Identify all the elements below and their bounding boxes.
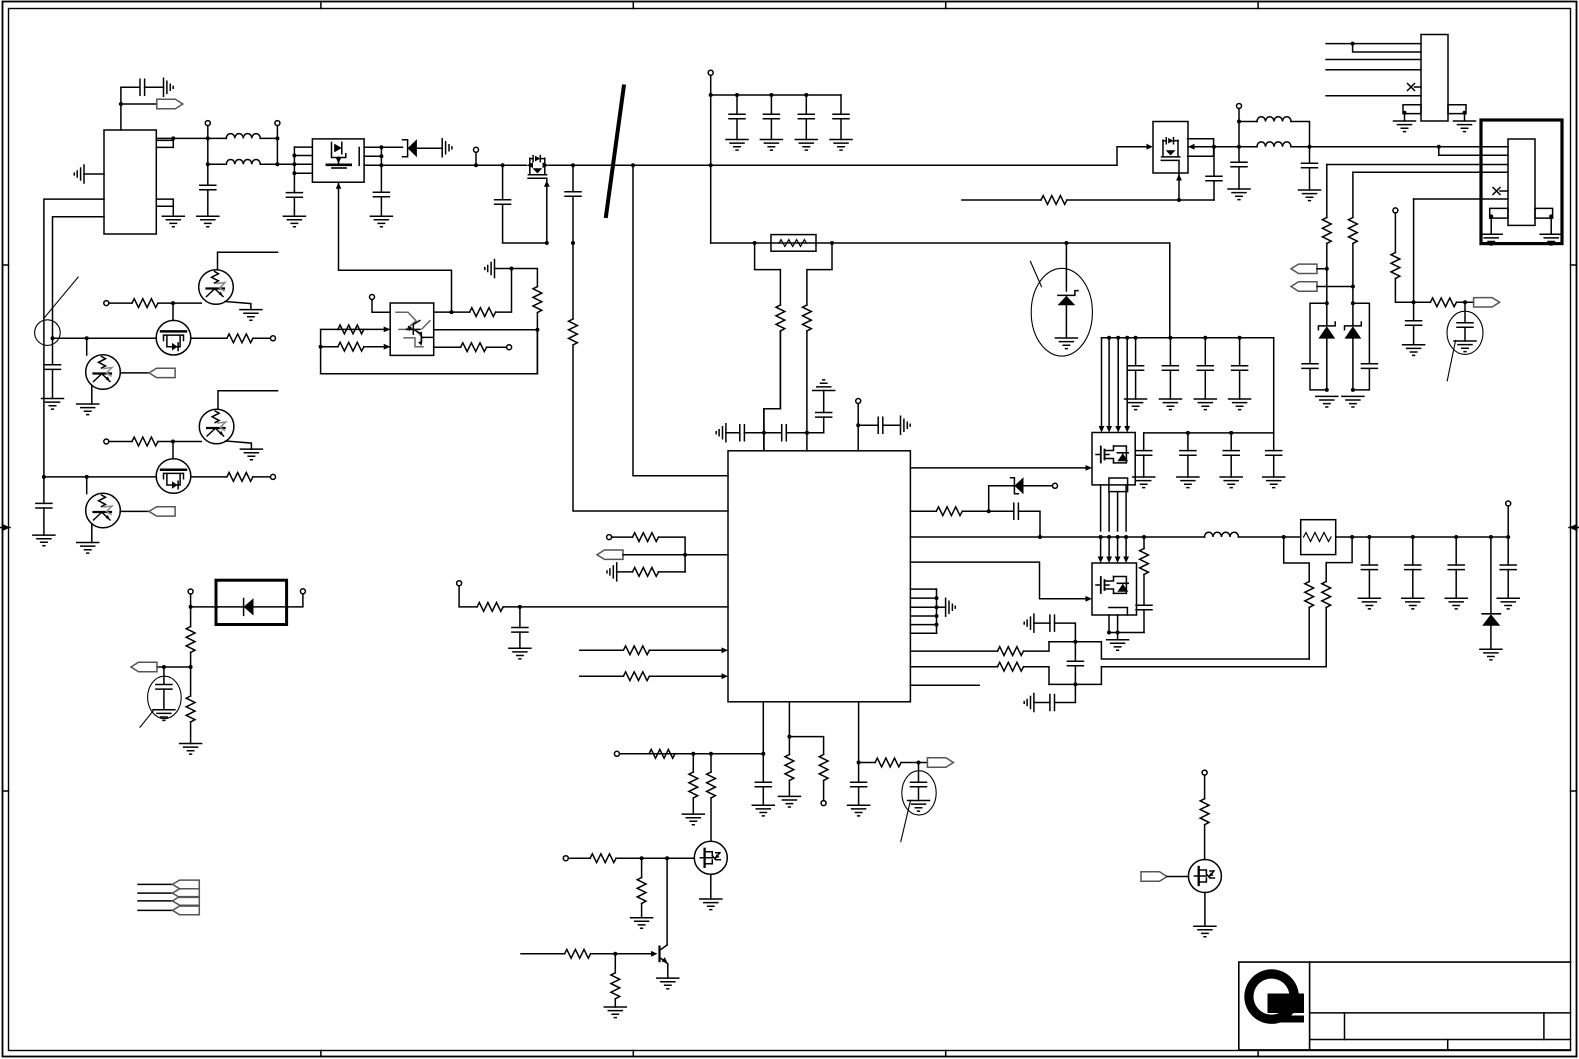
wire U3 isense+ row xyxy=(910,642,1049,651)
resistor R44 xyxy=(1322,582,1331,608)
resistor R14 xyxy=(227,334,253,343)
wire Q10 out xyxy=(191,476,227,478)
net flag Q6 gate xyxy=(1141,872,1167,881)
wire Q3 bottom pin xyxy=(1178,173,1180,200)
boot diode row xyxy=(989,485,1015,487)
arrow EN xyxy=(722,647,729,653)
resistor R43 xyxy=(1305,582,1314,608)
wire choke output column xyxy=(276,126,278,165)
wire opto collector out xyxy=(434,311,452,313)
wire node to R49 xyxy=(1414,301,1431,303)
ground C18 xyxy=(509,648,531,659)
junction dot kelvin left xyxy=(1282,535,1286,539)
wire R14 to terminal xyxy=(253,337,271,339)
wire Q1 right bus xyxy=(380,147,382,191)
ground QL xyxy=(1117,633,1119,640)
wire to net flag xyxy=(121,103,157,105)
wire U3 nc stub xyxy=(910,684,979,686)
ground C20 xyxy=(848,805,870,816)
terminal opto anode xyxy=(370,295,375,300)
junction dot out c34 xyxy=(1506,535,1510,539)
big slash mark xyxy=(606,87,624,217)
diode D5 cathode bar xyxy=(1482,613,1500,615)
wire C3 to ground xyxy=(293,191,295,216)
annotation ellipse around D2 xyxy=(1031,268,1092,356)
junction dot QL src 1 xyxy=(1107,631,1111,635)
junction dot QL src 2 xyxy=(1116,631,1120,635)
junction dot choke in bottom xyxy=(206,162,210,166)
inductor L1b xyxy=(226,160,260,165)
wire R37 branch xyxy=(788,737,790,755)
junction dot Q1 bus 3 xyxy=(292,171,296,175)
wire opto bottom rail xyxy=(321,330,538,374)
ground D5 xyxy=(1480,649,1502,660)
wire input cap rail 2 xyxy=(1144,433,1274,451)
junction dot out c32 xyxy=(1411,535,1415,539)
resistor R16 xyxy=(227,473,253,482)
transistor Q11 (digital npn) xyxy=(199,409,234,444)
resistor R27 xyxy=(623,646,649,655)
junction dot out diode xyxy=(1489,535,1493,539)
transistor Q1 (P-FET block) xyxy=(312,139,364,182)
junction dot rail2 c44 xyxy=(1229,431,1233,435)
resistor R23 xyxy=(461,343,487,352)
wire Q5 base row xyxy=(521,953,651,955)
capacitor C2 xyxy=(200,185,216,190)
capacitor C32 xyxy=(1412,537,1414,565)
wire TP4 column xyxy=(710,75,712,243)
border tick left 2 xyxy=(3,790,9,792)
capacitor C11 xyxy=(45,365,61,370)
border tick right 2 xyxy=(1571,790,1577,792)
wire J2 pin6 column xyxy=(1413,199,1415,302)
wire C35 column xyxy=(1213,147,1215,200)
diode D3 box xyxy=(216,580,287,624)
net flag divider xyxy=(131,662,157,671)
wire C24 row xyxy=(1034,623,1076,642)
capacitor C42 xyxy=(1136,451,1152,456)
top decoupling chain: analog ground xyxy=(716,424,726,442)
junction dot main rail x633 xyxy=(631,163,635,167)
ground U1 xyxy=(162,216,184,227)
wire U3 pin VCC top jog xyxy=(764,331,781,451)
junction dot TVS2 top xyxy=(1351,301,1355,305)
wire R18 to ground xyxy=(190,722,192,744)
wire Q9 emitter to ground xyxy=(91,386,93,405)
capacitor C17 xyxy=(878,417,883,433)
capacitor C23 xyxy=(1067,661,1083,666)
wire J1 tab grounds xyxy=(1405,114,1465,121)
resistor R20 xyxy=(338,342,364,351)
wire U3 isense- row xyxy=(910,667,1049,685)
wire gnd pin bus xyxy=(936,589,938,633)
wire R36 to terminal xyxy=(823,781,825,801)
wire R48 to node xyxy=(1395,279,1413,303)
resistor R29 xyxy=(649,749,675,758)
Q2 gate line xyxy=(528,178,547,243)
wire comp cap branch xyxy=(762,754,764,806)
junction dot choke2 top xyxy=(1237,120,1241,124)
wire snubber column xyxy=(1143,537,1145,549)
wire D1 to chassis ground xyxy=(417,147,442,149)
QH bottom notch xyxy=(1109,478,1128,492)
resistor R12 xyxy=(803,305,812,331)
QH body diode xyxy=(1117,453,1128,461)
wire J1 pin1 xyxy=(1326,43,1421,45)
wire input cap rail 1 xyxy=(1102,338,1274,433)
capacitor C41 in ellipse xyxy=(1464,302,1466,322)
wire J1 pin2 jog xyxy=(1353,44,1421,52)
junction dot base xyxy=(613,952,617,956)
resistor R25 xyxy=(633,568,659,577)
wire D5 column xyxy=(1490,537,1492,614)
wire R24 bend down xyxy=(659,537,686,572)
capacitor C14 xyxy=(740,425,745,441)
resistor R24 xyxy=(633,533,659,542)
resistor R31 xyxy=(707,772,716,798)
wire D2 to ground xyxy=(1065,305,1067,338)
wire C5 branch xyxy=(503,165,547,243)
resistor R45 xyxy=(1041,196,1067,205)
diode D4 cathode bent bar xyxy=(1011,478,1019,494)
junction dot zener rail xyxy=(1064,241,1068,245)
resistor R42 xyxy=(1140,549,1149,575)
J1 mount tab right xyxy=(1448,105,1466,114)
junction dot c8 xyxy=(769,93,773,97)
junction dot TVS1 top xyxy=(1325,301,1329,305)
junction dot cluster1 left xyxy=(85,336,89,340)
resistor R11 xyxy=(776,305,785,331)
junction dot J2 tab right xyxy=(1549,214,1553,218)
annotation pointer line C13 xyxy=(140,711,154,728)
wire gate row xyxy=(568,857,694,859)
capacitor C7 xyxy=(736,95,738,114)
wire Q9 flag xyxy=(121,372,150,374)
wire zener column xyxy=(1065,243,1067,291)
diode D1 xyxy=(408,139,417,157)
ground C42 xyxy=(1133,477,1155,488)
wire U3 left pin1 xyxy=(633,165,728,476)
ground C4 xyxy=(370,216,392,227)
wire R46 down xyxy=(1326,244,1328,304)
resistor R46 xyxy=(1322,218,1331,244)
ground R18 xyxy=(180,744,202,755)
wire C6 column xyxy=(572,165,574,243)
wire main to J2 xyxy=(1291,146,1508,148)
junction dot c7 xyxy=(735,93,739,97)
wire boot cap xyxy=(858,424,878,426)
wire QH feed 2 xyxy=(1108,338,1110,426)
Q3 mosfet glyph xyxy=(1161,138,1180,173)
junction dot J1 tab left xyxy=(1403,111,1407,115)
transistor Q2 (pass FET) xyxy=(527,156,549,175)
wire C2 to ground xyxy=(207,190,209,216)
annotation ellipse node A xyxy=(35,320,61,346)
Q1 source arrowhead bottom xyxy=(336,183,342,189)
junction dot choke2 out xyxy=(1308,145,1312,149)
wire left bend opto xyxy=(321,329,338,373)
transistor Q4 (nfet) xyxy=(694,841,727,874)
wire cap rail y95 xyxy=(711,94,841,96)
junction dot RT xyxy=(518,605,522,609)
ground J1 right xyxy=(1454,121,1476,132)
junction dot gnd bus 4 xyxy=(935,623,939,627)
ground R33 xyxy=(631,918,653,929)
junction dot rail1 c26 xyxy=(1134,336,1138,340)
wire Q7 out xyxy=(191,337,227,339)
junction dot opto left xyxy=(319,345,323,349)
RT pin: terminal xyxy=(457,581,462,586)
wire fsel branch right xyxy=(789,737,823,755)
wire bus to agnd xyxy=(937,606,946,608)
shunt resistor RS1 box xyxy=(771,235,816,252)
title block cell divider a xyxy=(1344,1013,1346,1040)
wire QH-QL link 2 xyxy=(1108,492,1110,531)
capacitor C27 xyxy=(1169,338,1171,366)
net flag VREF xyxy=(927,758,953,767)
junction dot Q3 gate xyxy=(1177,198,1181,202)
chassis ground right of C1 xyxy=(164,78,174,96)
diode D3 xyxy=(218,599,287,616)
terminal Q6 drain xyxy=(1202,770,1207,775)
capacitor C1 xyxy=(140,79,145,95)
wire TVS2 cap branch xyxy=(1353,303,1370,390)
border center arrow left xyxy=(2,524,11,532)
wire R30 branch xyxy=(692,754,694,772)
wire C16 to inverted ground xyxy=(823,391,825,413)
terminal TP3 xyxy=(474,147,479,152)
arrow into QH xyxy=(1086,465,1093,471)
wire QH feed 3 xyxy=(1117,338,1119,426)
wire Q8 emitter to ground xyxy=(225,302,251,310)
capacitor C40 xyxy=(1413,302,1415,320)
QH mosfet glyph xyxy=(1101,447,1105,463)
border tick bottom 3 xyxy=(945,1051,947,1057)
Q3 right notch xyxy=(1188,139,1214,157)
wire choke2 top winding lead xyxy=(1239,121,1257,123)
wire FB to U3 xyxy=(623,554,728,556)
wire J2 nc stub xyxy=(1500,190,1508,192)
resistor R18 xyxy=(186,696,195,722)
capacitor C24 xyxy=(1050,615,1055,631)
junction dot C5 top xyxy=(501,163,505,167)
arrow QH in 3 xyxy=(1115,426,1121,433)
U3 gnd pin stubs xyxy=(910,589,936,633)
ground D2 xyxy=(1055,338,1077,349)
wire pullup column xyxy=(1394,213,1396,253)
wire Q9 collector branch xyxy=(86,338,88,355)
wire D3 right to terminal xyxy=(287,594,303,607)
junction dot comp 3 xyxy=(761,752,765,756)
wire flag to TVS2 xyxy=(1317,286,1353,288)
resistor R21 xyxy=(470,308,496,317)
ground C13 xyxy=(153,710,175,721)
wire main rail into Q1 bus xyxy=(277,163,294,165)
wire R37 gnd xyxy=(788,781,790,797)
junction dot sense right xyxy=(830,241,834,245)
wire RS2 through xyxy=(1336,536,1352,538)
wire to annotation cap xyxy=(163,667,165,684)
ground R35 xyxy=(604,1007,626,1018)
transistor Q8 (digital npn) xyxy=(199,270,234,305)
wire Q11 collector xyxy=(218,391,278,410)
diode D1 cathode bent bar xyxy=(403,140,408,157)
ground TVS1 xyxy=(1316,396,1338,407)
resistor R47 xyxy=(1349,218,1358,244)
Q1 body diode symbol xyxy=(332,142,342,154)
connector J1 body xyxy=(1421,35,1448,122)
ground C12 xyxy=(33,535,55,546)
terminal pullup xyxy=(1393,208,1398,213)
ground Q4 xyxy=(700,899,722,910)
wire C42 gnd xyxy=(1143,455,1145,477)
resistor R17 xyxy=(186,627,195,653)
ground J2 right xyxy=(1540,234,1562,245)
terminal cluster2 gate input xyxy=(104,439,109,444)
ground C3 xyxy=(283,216,305,227)
capacitor C45 xyxy=(1273,433,1275,451)
IC U3 xyxy=(728,451,910,702)
capacitor C30 xyxy=(1136,605,1152,610)
wire anode xyxy=(372,300,390,313)
wire gate drive row xyxy=(962,199,1214,201)
terminal boot xyxy=(856,399,861,404)
junction dot comp 2 xyxy=(709,752,713,756)
wire vref row xyxy=(859,762,928,764)
ground R30 xyxy=(682,814,704,825)
junction dot TP3 xyxy=(474,163,478,167)
ground Q9 xyxy=(77,404,99,415)
wire U1 gnd pin xyxy=(172,206,174,216)
wire U3 fsel pin down xyxy=(788,702,790,737)
arrow into QL xyxy=(1086,596,1093,602)
border tick top 2 xyxy=(632,2,634,9)
wire choke input column xyxy=(207,126,209,186)
wire EN pin xyxy=(580,649,726,651)
junction dot choke in top xyxy=(206,136,210,140)
wire U1 pin to vertical bus B xyxy=(53,217,105,339)
wire comp rail xyxy=(617,753,763,755)
inductor L3b xyxy=(1257,142,1291,147)
wire J1 pin3 xyxy=(1326,59,1421,61)
net flag harness 1 xyxy=(173,880,200,889)
wire D4 to terminal xyxy=(1024,485,1053,487)
arrow QH in 2 xyxy=(1106,426,1112,433)
resistor R33 xyxy=(637,878,646,904)
capacitor C37 xyxy=(1309,147,1311,164)
resistor R41 xyxy=(998,662,1024,671)
wire R25 to FB node xyxy=(659,571,686,573)
diode D5 xyxy=(1482,614,1500,626)
junction dot opto pullup xyxy=(510,267,514,271)
junction dot boot node xyxy=(987,509,991,513)
junction dot choke out top xyxy=(275,136,279,140)
capacitor C18 xyxy=(512,628,528,633)
net flag harness 4 xyxy=(173,906,200,915)
junction dot feed4 xyxy=(1125,336,1129,340)
wire R22 down xyxy=(536,313,538,374)
shunt resistor RS2 box xyxy=(1301,520,1336,555)
wire R43 to sense rail xyxy=(1308,608,1310,660)
wire boot node up xyxy=(988,486,990,511)
terminal choke2 xyxy=(1237,104,1242,109)
analog ground FB xyxy=(607,563,617,581)
wire QL source down 1 xyxy=(1108,615,1110,633)
capacitor C25 xyxy=(1050,695,1055,711)
wire R12 to U3 xyxy=(806,331,808,451)
wire L3a to right column xyxy=(1291,122,1310,147)
junction dot TVS1 bottom xyxy=(1325,388,1329,392)
ground inverted C16 xyxy=(813,380,835,391)
border tick bottom 1 xyxy=(320,1051,322,1057)
zener D6 xyxy=(1326,303,1328,325)
capacitor C29 xyxy=(1239,338,1241,366)
wire R10 to U3 pin xyxy=(573,345,728,511)
connector J2 inner body xyxy=(1508,139,1535,225)
ground R37 xyxy=(778,796,800,807)
junction dot c9 xyxy=(804,93,808,97)
border tick top 4 xyxy=(1257,2,1259,9)
junction dot VCC chain xyxy=(762,431,766,435)
capacitor C8 xyxy=(770,95,772,114)
terminal Q4 gate xyxy=(563,856,568,861)
terminal VOUT xyxy=(1506,501,1511,506)
annotation pointer line node A xyxy=(45,277,79,317)
title block outline xyxy=(1239,962,1571,1050)
resistor R19 xyxy=(338,325,364,334)
junction dot choke out bottom xyxy=(275,162,279,166)
wire R11 to U3 pin jog xyxy=(764,331,781,451)
wire harness 2 xyxy=(138,892,173,894)
net flag FB xyxy=(597,550,623,559)
wire R21 up bend xyxy=(496,269,512,313)
capacitor C28 xyxy=(1204,338,1206,366)
diode D4 xyxy=(1014,477,1023,494)
net flag VIN xyxy=(157,99,183,108)
junction dot choke2 in xyxy=(1237,145,1241,149)
wire TVS1 cap branch xyxy=(1310,303,1327,390)
wire Q6 drain column xyxy=(1204,775,1206,799)
resistor R37 xyxy=(785,755,794,781)
wire gate to pfet 2 xyxy=(172,442,174,459)
terminal D3 left xyxy=(188,589,193,594)
wire filter cap column xyxy=(1074,642,1076,685)
junction dot SW 1 xyxy=(1099,535,1103,539)
ground C21 xyxy=(908,801,930,812)
border tick bottom 4 xyxy=(1257,1051,1259,1057)
junction dot sense top xyxy=(1073,640,1077,644)
Q2 gate arrow up xyxy=(544,181,550,187)
junction dot fsel xyxy=(787,735,791,739)
wire flag to gate xyxy=(1167,876,1189,878)
wire output rail xyxy=(1352,536,1508,538)
J2 mount tab right xyxy=(1535,208,1553,218)
capacitor C9 xyxy=(805,95,807,114)
wire C17 to agnd xyxy=(883,424,901,426)
junction dot vref xyxy=(857,761,861,765)
wire U3 ldrv jog to QL xyxy=(910,562,1085,599)
capacitor C43 xyxy=(1187,433,1189,451)
resistor R30 xyxy=(689,772,698,798)
U1 right pin tab 2 xyxy=(156,199,173,206)
junction dot SW snub xyxy=(1142,535,1146,539)
inductor L2 xyxy=(1205,532,1239,537)
junction dot Q1 bus 1 xyxy=(292,154,296,158)
terminal D3 right xyxy=(300,589,305,594)
wire sense bottom rail xyxy=(1049,667,1326,685)
junction dot gnd bus 2 xyxy=(935,605,939,609)
transistor Q5 (npn) xyxy=(658,947,660,962)
